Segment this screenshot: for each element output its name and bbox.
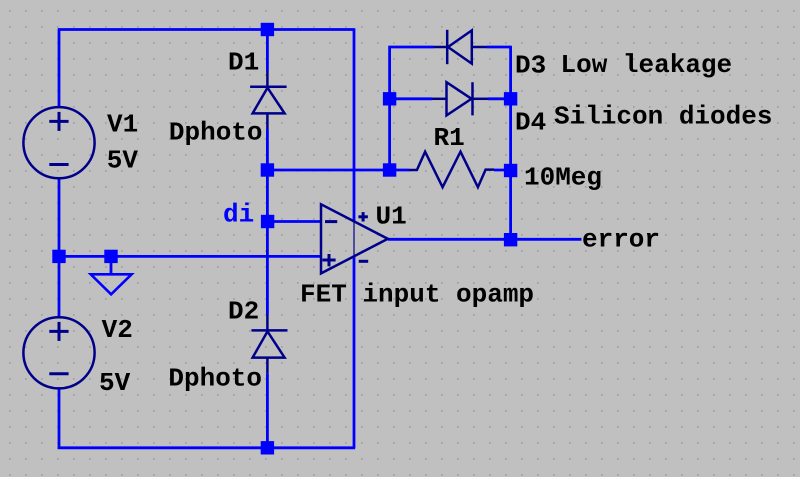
diode D4 (points right) [432, 82, 488, 115]
ground [91, 274, 132, 294]
svg-text:D4: D4 [515, 107, 546, 137]
wire: opamp output [388, 238, 511, 241]
wire: D4 row left [390, 97, 432, 100]
svg-text:5V: 5V [99, 368, 131, 398]
junction at D1 bottom / R1 row [261, 163, 274, 176]
svg-text:10Meg: 10Meg [524, 163, 602, 193]
junction at R1 left [383, 163, 396, 176]
junction at di node [261, 215, 274, 228]
junction at D2 bottom / bottom rail [261, 441, 274, 454]
svg-text:V1: V1 [107, 110, 138, 140]
wire: D1 column from top rail [266, 30, 269, 72]
junction at left rail / ground row [52, 250, 65, 263]
svg-text:D3: D3 [515, 50, 546, 80]
wire: feedback right vertical [509, 46, 512, 240]
op-amp U1 [321, 204, 388, 273]
wire: ground row to opamp non-inverting input [58, 255, 321, 258]
wire: D3 row right [487, 46, 511, 49]
wire: left rail below V2 [58, 389, 61, 450]
wire: di row to opamp inverting input [267, 220, 320, 223]
svg-text:Dphoto: Dphoto [169, 118, 263, 148]
junction at top rail / D1 column [261, 23, 274, 36]
svg-text:U1: U1 [376, 202, 407, 232]
svg-text:5V: 5V [107, 146, 139, 176]
wire: D4 row right [488, 97, 511, 100]
diode D2 (photodiode, cathode up) [251, 315, 287, 374]
junction at error node [504, 233, 517, 246]
diode D3 (points left) [434, 30, 488, 64]
svg-text:Low leakage: Low leakage [561, 50, 733, 80]
wire: opamp power vertical bottom segment [353, 256, 356, 448]
svg-text:di: di [223, 200, 254, 230]
wire: D3 row left [390, 46, 434, 49]
voltage source V1 [23, 107, 94, 178]
wire: left rail between V1 and V2 [58, 178, 61, 317]
wire: error lead [511, 238, 582, 241]
wire: top rail [58, 28, 354, 31]
svg-text:FET input opamp: FET input opamp [300, 280, 534, 310]
junction at R1 right [504, 164, 517, 177]
wire: left rail top (V1 top to top rail corner) [58, 30, 61, 108]
wire: R1 left lead [390, 169, 409, 172]
junction at ground stub [104, 250, 117, 263]
svg-text:V2: V2 [102, 315, 133, 345]
junction at D4 right [504, 92, 517, 105]
wire: R1 row from D1 node to R1 left node [267, 169, 389, 172]
svg-text:D2: D2 [228, 297, 259, 327]
wire: R1 right lead [494, 169, 511, 172]
wire: feedback left vertical [388, 46, 391, 170]
wire: opamp power vertical top segment [353, 28, 356, 222]
svg-text:error: error [582, 225, 660, 255]
wire: D2 column (di node down to D2) [266, 222, 269, 315]
svg-text:Dphoto: Dphoto [168, 364, 262, 394]
wire: D1 column middle (D1 anode down to di node) [266, 130, 269, 222]
voltage source V2 [23, 317, 94, 388]
svg-text:Silicon diodes: Silicon diodes [554, 102, 772, 132]
resistor R1 [409, 152, 494, 188]
diode D1 (photodiode, cathode up) [250, 71, 287, 130]
svg-text:R1: R1 [434, 123, 465, 153]
wire: bottom rail [58, 446, 355, 449]
junction at D4 left [383, 92, 396, 105]
wire: ground stub [110, 256, 113, 273]
svg-text:D1: D1 [228, 48, 259, 78]
wire: D2 column bottom [266, 374, 269, 448]
